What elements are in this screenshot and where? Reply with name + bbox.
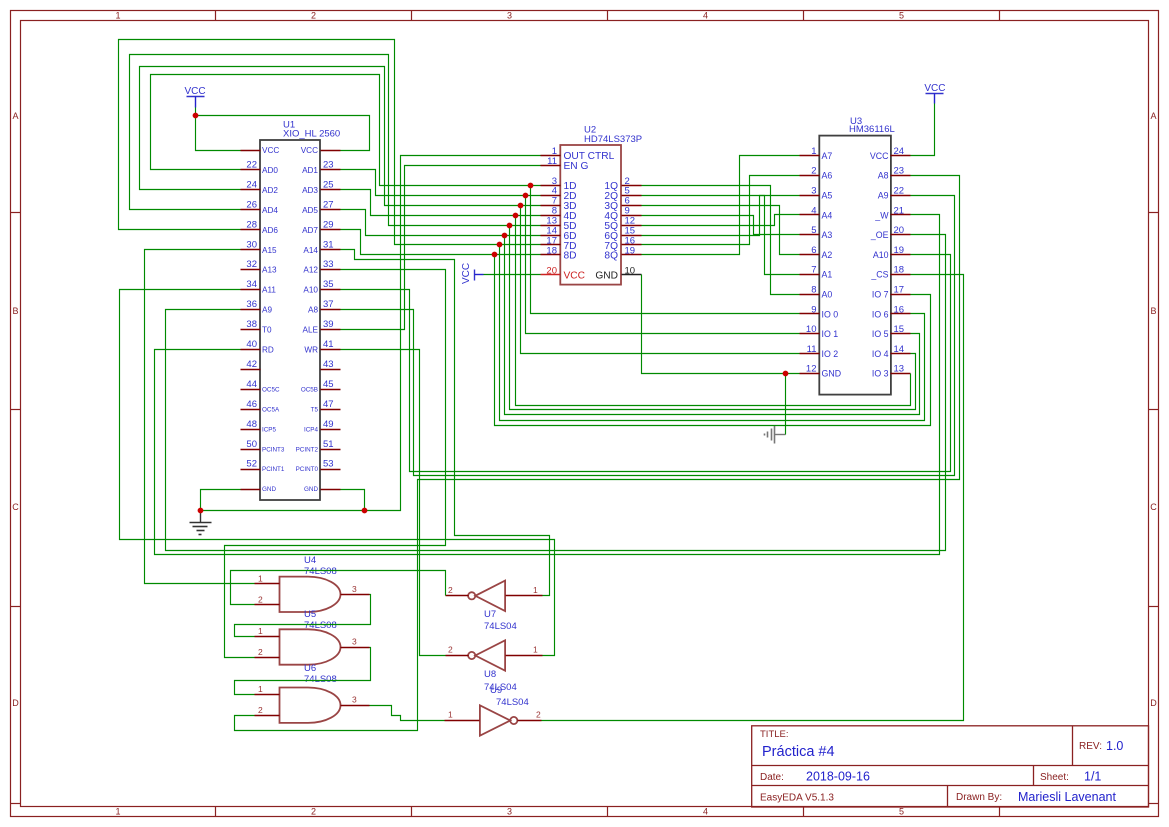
svg-text:1: 1 — [258, 684, 263, 694]
wire AD3 net U1.25 to U2.4D to U3.IO3 — [341, 190, 541, 216]
svg-text:REV:: REV: — [1079, 741, 1102, 752]
svg-text:IO 3: IO 3 — [872, 369, 889, 379]
svg-text:34: 34 — [246, 279, 257, 290]
wire U3 pin23 line to U6 input 2 — [235, 176, 960, 731]
svg-text:1: 1 — [115, 807, 120, 817]
svg-text:1: 1 — [533, 645, 538, 655]
svg-text:18: 18 — [894, 265, 905, 276]
svg-text:19: 19 — [894, 245, 905, 256]
svg-text:GND: GND — [595, 271, 618, 282]
svg-text:1: 1 — [533, 585, 538, 595]
svg-text:U4: U4 — [304, 555, 316, 566]
wire U1 A10 to U3 A10 — [341, 255, 951, 472]
wire U1 GND net to U2 OUT CTRL — [201, 490, 241, 511]
svg-text:Mariesli Lavenant: Mariesli Lavenant — [1018, 790, 1116, 804]
svg-text:43: 43 — [323, 359, 334, 370]
svg-text:74LS04: 74LS04 — [484, 621, 517, 632]
svg-text:B: B — [12, 306, 18, 316]
svg-text:1.0: 1.0 — [1106, 739, 1123, 753]
wire U1 A9 to U3 OE — [166, 235, 946, 551]
U1 pins with numbers and names — [241, 150, 261, 152]
svg-text:A11: A11 — [262, 286, 276, 295]
wire U1 A14 to U7 input — [341, 250, 550, 596]
svg-text:1: 1 — [448, 710, 453, 720]
svg-text:ICP5: ICP5 — [262, 426, 276, 433]
wire VCC to U1 VCC pins — [196, 108, 241, 151]
svg-text:A0: A0 — [822, 290, 833, 300]
svg-text:3: 3 — [507, 11, 512, 21]
svg-text:2: 2 — [448, 585, 453, 595]
svg-text:9: 9 — [811, 304, 816, 315]
AND gate U5 74LS08 body and pins — [280, 629, 341, 664]
wire U1 RD to U3 W — [155, 215, 940, 555]
svg-text:14: 14 — [894, 344, 905, 355]
svg-text:3: 3 — [352, 584, 357, 594]
svg-text:50: 50 — [246, 439, 257, 450]
svg-text:47: 47 — [323, 399, 334, 410]
svg-text:A10: A10 — [873, 250, 889, 260]
junction dot AD7-8D — [492, 252, 498, 258]
svg-text:A15: A15 — [262, 246, 277, 255]
svg-text:AD0: AD0 — [262, 166, 278, 175]
wire AD7 net U1.29 to U2.8D to U3.IO7 — [341, 230, 541, 255]
wire U3 VCC pin 24 — [911, 104, 935, 156]
svg-text:A8: A8 — [878, 171, 889, 181]
svg-text:2: 2 — [536, 710, 541, 720]
svg-text:36: 36 — [246, 299, 257, 310]
svg-text:Date:: Date: — [760, 772, 784, 783]
svg-text:IO 4: IO 4 — [872, 349, 889, 359]
svg-text:RD: RD — [262, 346, 274, 355]
junction dot AD2-3D — [518, 203, 524, 209]
svg-text:2: 2 — [311, 11, 316, 21]
svg-text:25: 25 — [323, 179, 334, 190]
svg-text:U9: U9 — [490, 685, 502, 696]
svg-text:AD4: AD4 — [262, 206, 278, 215]
svg-text:IO 0: IO 0 — [822, 309, 839, 319]
inverter U7 74LS04 body and pins — [475, 581, 505, 611]
svg-text:HM36116L: HM36116L — [849, 124, 895, 135]
wire U1 A11 to U8 input — [120, 290, 555, 656]
svg-text:1: 1 — [258, 573, 263, 583]
svg-text:24: 24 — [894, 146, 905, 157]
svg-text:A4: A4 — [822, 210, 833, 220]
svg-text:39: 39 — [323, 319, 334, 330]
svg-text:A9: A9 — [878, 191, 889, 201]
title block — [752, 726, 1149, 807]
svg-text:HD74LS373P: HD74LS373P — [584, 134, 642, 145]
junction dot GND left — [198, 508, 204, 514]
svg-text:31: 31 — [323, 239, 334, 250]
svg-text:_OE: _OE — [870, 230, 889, 240]
svg-text:Sheet:: Sheet: — [1040, 772, 1069, 783]
svg-text:OC5C: OC5C — [262, 386, 280, 393]
wire U4 output to U5 input 1 — [235, 595, 371, 637]
svg-text:AD6: AD6 — [262, 226, 278, 235]
svg-text:VCC: VCC — [564, 271, 586, 282]
IC U3 HM36116L body — [819, 136, 891, 395]
svg-text:IO 2: IO 2 — [822, 349, 839, 359]
svg-text:52: 52 — [246, 459, 257, 470]
svg-text:18: 18 — [546, 245, 557, 256]
svg-text:A1: A1 — [822, 270, 833, 280]
svg-text:D: D — [12, 698, 19, 708]
svg-text:_W: _W — [874, 210, 889, 220]
svg-text:PCINT0: PCINT0 — [296, 466, 319, 473]
svg-text:U7: U7 — [484, 609, 496, 620]
svg-text:VCC: VCC — [461, 263, 472, 284]
junction dot AD3-4D — [513, 213, 519, 219]
svg-text:8Q: 8Q — [604, 251, 618, 262]
svg-text:21: 21 — [894, 205, 905, 216]
svg-text:1/1: 1/1 — [1084, 770, 1101, 784]
svg-text:B: B — [1150, 306, 1156, 316]
inverter U9 74LS04 body and pins — [480, 705, 510, 735]
svg-text:PCINT3: PCINT3 — [262, 446, 285, 453]
svg-text:2: 2 — [258, 705, 263, 715]
svg-text:GND: GND — [822, 369, 842, 379]
svg-text:IO 7: IO 7 — [872, 290, 889, 300]
svg-text:6: 6 — [811, 245, 816, 256]
wire U2 EN G to U1 ALE — [341, 166, 541, 330]
svg-text:74LS08: 74LS08 — [304, 620, 337, 631]
svg-text:4: 4 — [811, 205, 816, 216]
wire U1 WR to U8 output — [341, 350, 446, 656]
svg-text:22: 22 — [246, 159, 257, 170]
svg-text:38: 38 — [246, 319, 257, 330]
svg-text:VCC: VCC — [184, 86, 205, 97]
svg-text:C: C — [12, 502, 19, 512]
svg-text:A10: A10 — [303, 286, 318, 295]
svg-text:A: A — [1150, 111, 1156, 121]
svg-text:27: 27 — [323, 199, 334, 210]
wire AD6 net U1.28 to U2.7D to U3.IO6 — [119, 40, 541, 245]
wire U5 output to U6 input 1 — [235, 648, 371, 695]
svg-text:EN G: EN G — [564, 161, 589, 172]
svg-text:VCC: VCC — [301, 146, 318, 155]
IC U2 HD74LS373P body — [560, 145, 621, 285]
svg-text:10: 10 — [625, 265, 636, 276]
svg-text:A3: A3 — [822, 230, 833, 240]
svg-text:AD2: AD2 — [262, 186, 278, 195]
svg-text:74LS08: 74LS08 — [304, 674, 337, 685]
svg-text:ICP4: ICP4 — [304, 426, 318, 433]
svg-text:30: 30 — [246, 239, 257, 250]
svg-text:2: 2 — [311, 807, 316, 817]
svg-text:IO 5: IO 5 — [872, 329, 889, 339]
svg-text:5: 5 — [899, 11, 904, 21]
svg-text:23: 23 — [323, 159, 334, 170]
junction dot AD5-6D — [502, 233, 508, 239]
ground symbol near U3 GND — [775, 434, 786, 436]
svg-text:1: 1 — [811, 146, 816, 157]
svg-text:8: 8 — [811, 285, 816, 296]
junction dot U3 GND — [783, 371, 789, 377]
svg-text:IO 6: IO 6 — [872, 309, 889, 319]
svg-text:C: C — [1150, 502, 1157, 512]
svg-text:VCC: VCC — [262, 146, 279, 155]
wires U2 outputs 1Q-8Q to U3 A0-A7 — [642, 186, 800, 295]
svg-text:A13: A13 — [262, 266, 277, 275]
junction dot AD1-2D — [523, 193, 529, 199]
svg-text:_CS: _CS — [870, 270, 888, 280]
wire U1 A8 to U3 pin22 — [341, 196, 955, 476]
svg-text:53: 53 — [323, 459, 334, 470]
svg-text:45: 45 — [323, 379, 334, 390]
svg-text:3: 3 — [352, 637, 357, 647]
svg-text:A8: A8 — [308, 306, 318, 315]
svg-text:OC5B: OC5B — [301, 386, 318, 393]
svg-text:33: 33 — [323, 259, 334, 270]
svg-text:AD7: AD7 — [302, 226, 318, 235]
svg-text:OC5A: OC5A — [262, 406, 280, 413]
svg-text:2: 2 — [258, 647, 263, 657]
svg-text:51: 51 — [323, 439, 334, 450]
svg-text:24: 24 — [246, 179, 257, 190]
svg-text:TITLE:: TITLE: — [760, 729, 789, 740]
junction dot AD4-5D — [507, 223, 513, 229]
svg-text:D: D — [1150, 698, 1157, 708]
svg-text:41: 41 — [323, 339, 334, 350]
svg-text:A6: A6 — [822, 171, 833, 181]
svg-text:26: 26 — [246, 199, 257, 210]
svg-text:A14: A14 — [303, 246, 318, 255]
svg-text:T0: T0 — [262, 326, 272, 335]
AND gate U4 74LS08 body and pins — [280, 577, 341, 612]
wire AD5 net U1.27 to U2.6D to U3.IO5 — [341, 210, 541, 236]
junction dot AD0-1D — [528, 183, 534, 189]
wire U1 A15 to U4 input 1 — [145, 250, 255, 584]
svg-text:49: 49 — [323, 419, 334, 430]
svg-text:23: 23 — [894, 166, 905, 177]
wire VCC to U2 pin 20 — [484, 274, 541, 276]
svg-text:22: 22 — [894, 186, 905, 197]
svg-text:VCC: VCC — [870, 151, 889, 161]
svg-text:35: 35 — [323, 279, 334, 290]
svg-text:11: 11 — [807, 344, 817, 355]
inverter U8 74LS04 body and pins — [475, 640, 505, 670]
AND gate U6 74LS08 body and pins — [280, 688, 341, 723]
svg-text:48: 48 — [246, 419, 257, 430]
svg-text:A2: A2 — [822, 250, 833, 260]
U2 pins with numbers and names — [541, 155, 561, 157]
svg-text:32: 32 — [246, 259, 257, 270]
svg-text:Práctica #4: Práctica #4 — [762, 744, 835, 760]
wire AD4 net U1.26 to U2.5D to U3.IO4 — [130, 55, 541, 226]
wire U1 A12 to U5 input 2 — [225, 270, 446, 658]
svg-text:A12: A12 — [303, 266, 318, 275]
wire U2 GND to U3 GND and ground — [642, 275, 800, 374]
svg-text:GND: GND — [304, 486, 318, 493]
wire U6 output to U9 input — [370, 706, 445, 721]
svg-text:WR: WR — [304, 346, 318, 355]
svg-text:3: 3 — [811, 186, 816, 197]
svg-text:28: 28 — [246, 219, 257, 230]
svg-text:11: 11 — [547, 156, 557, 167]
svg-text:PCINT2: PCINT2 — [296, 446, 319, 453]
svg-text:74LS04: 74LS04 — [496, 697, 529, 708]
wire U7 output to U4 input 2 — [231, 571, 446, 605]
svg-text:29: 29 — [323, 219, 334, 230]
svg-text:A9: A9 — [262, 306, 272, 315]
svg-text:74LS08: 74LS08 — [304, 566, 337, 577]
U3 pins with numbers and names — [800, 155, 820, 157]
svg-text:20: 20 — [546, 265, 557, 276]
wire AD0 net U1.22 to U2.1D to U3.IO0 — [151, 75, 541, 186]
svg-text:44: 44 — [246, 379, 257, 390]
svg-text:2: 2 — [448, 645, 453, 655]
svg-text:T5: T5 — [311, 406, 319, 413]
svg-text:37: 37 — [323, 299, 334, 310]
junction dot VCC U1 — [193, 113, 199, 119]
svg-text:Drawn By:: Drawn By: — [956, 792, 1002, 803]
wire AD1 net U1.23 to U2.2D to U3.IO1left — [341, 170, 541, 196]
svg-text:40: 40 — [246, 339, 257, 350]
svg-text:4: 4 — [703, 807, 708, 817]
svg-text:XIO_HL 2560: XIO_HL 2560 — [283, 129, 340, 140]
svg-text:A5: A5 — [822, 191, 833, 201]
svg-text:3: 3 — [507, 807, 512, 817]
svg-text:2: 2 — [811, 166, 816, 177]
svg-text:VCC: VCC — [924, 83, 945, 94]
svg-text:2: 2 — [258, 594, 263, 604]
svg-text:3: 3 — [352, 695, 357, 705]
svg-text:2018-09-16: 2018-09-16 — [806, 770, 870, 784]
svg-text:15: 15 — [894, 324, 905, 335]
svg-text:AD5: AD5 — [302, 206, 318, 215]
svg-text:7: 7 — [811, 265, 816, 276]
svg-text:13: 13 — [894, 364, 905, 375]
wire U3 CS to U9 output — [542, 275, 964, 721]
svg-text:AD1: AD1 — [302, 166, 318, 175]
svg-text:5: 5 — [899, 807, 904, 817]
svg-text:5: 5 — [811, 225, 816, 236]
svg-text:A: A — [12, 111, 18, 121]
svg-text:42: 42 — [246, 359, 257, 370]
ground symbol below U1 — [200, 511, 202, 523]
svg-text:EasyEDA V5.1.3: EasyEDA V5.1.3 — [760, 793, 834, 804]
svg-text:20: 20 — [894, 225, 905, 236]
svg-text:U8: U8 — [484, 669, 496, 680]
svg-text:8D: 8D — [564, 251, 577, 262]
svg-text:IO 1: IO 1 — [822, 329, 839, 339]
svg-text:16: 16 — [894, 304, 905, 315]
junction dot AD6-7D — [497, 242, 503, 248]
svg-text:4: 4 — [703, 11, 708, 21]
svg-text:U6: U6 — [304, 663, 316, 674]
svg-text:GND: GND — [262, 486, 276, 493]
svg-text:10: 10 — [806, 324, 817, 335]
svg-text:PCINT1: PCINT1 — [262, 466, 285, 473]
wire AD2 net U1.24 to U2.3D to U3.IO1 — [140, 67, 541, 206]
svg-text:1: 1 — [115, 11, 120, 21]
svg-text:1: 1 — [258, 626, 263, 636]
svg-text:46: 46 — [246, 399, 257, 410]
svg-text:12: 12 — [806, 364, 817, 375]
svg-text:ALE: ALE — [303, 326, 319, 335]
svg-text:U5: U5 — [304, 609, 316, 620]
svg-text:A7: A7 — [822, 151, 833, 161]
svg-text:19: 19 — [625, 245, 636, 256]
svg-text:17: 17 — [894, 285, 905, 296]
IC U1 XIO_HL 2560 body — [260, 140, 320, 500]
junction dot GND right — [362, 508, 368, 514]
svg-text:AD3: AD3 — [302, 186, 318, 195]
